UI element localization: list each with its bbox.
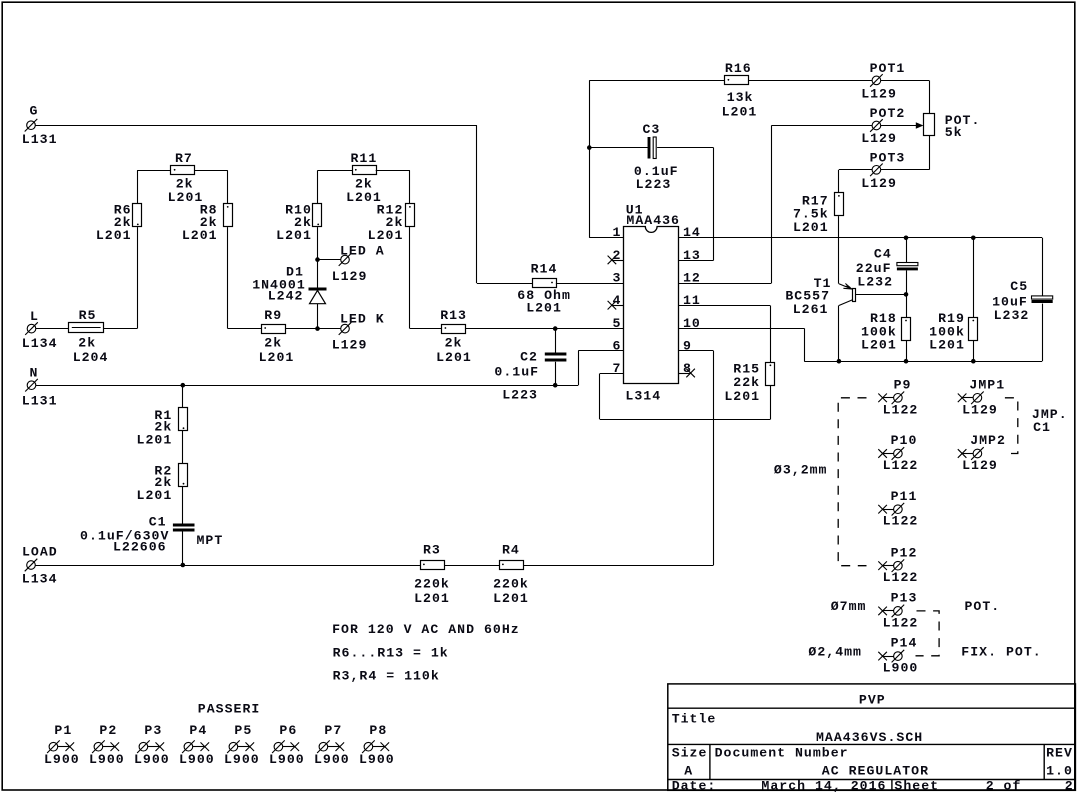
svg-text:R11: R11 — [351, 151, 378, 166]
junction N / C2 bottom node — [553, 383, 558, 388]
wire diode column — [317, 260, 319, 329]
wire T1 base to C4/R18 node — [856, 294, 906, 296]
port P6 — [272, 740, 299, 753]
wire R10 top to R11 left — [318, 170, 353, 259]
resistor R1 — [179, 408, 188, 431]
wire R11 right to R12 top — [376, 170, 410, 203]
wire pin 13 stub — [679, 260, 714, 262]
junction R19 on rail — [971, 359, 976, 364]
svg-text:L22606: L22606 — [113, 540, 167, 555]
wire R5 to R6 riser — [104, 227, 138, 329]
wire pin 11 to R15 top — [679, 306, 771, 363]
svg-text:R3,R4 = 110k: R3,R4 = 110k — [333, 668, 440, 683]
resistor R2 — [179, 464, 188, 487]
junction N / R1 node — [181, 383, 186, 388]
svg-text:R5: R5 — [79, 308, 97, 323]
svg-text:L201: L201 — [137, 433, 173, 448]
port G — [25, 119, 38, 132]
wire R15 bottom to pin7 loop — [770, 386, 772, 420]
svg-text:JMP2: JMP2 — [970, 433, 1006, 448]
svg-text:C2: C2 — [520, 349, 538, 364]
svg-text:REV: REV — [1046, 746, 1073, 761]
wire R1 column — [182, 385, 184, 407]
svg-text:N: N — [30, 365, 39, 380]
resistor R3 — [421, 561, 445, 570]
wire T1 collector down to rail — [838, 306, 840, 362]
svg-text:220k: 220k — [414, 576, 450, 591]
svg-text:L201: L201 — [182, 228, 218, 243]
dashed bracket P9-P12 group — [838, 398, 866, 566]
svg-text:2k: 2k — [264, 336, 282, 351]
capacitor C4 — [897, 238, 918, 295]
svg-text:L129: L129 — [861, 176, 897, 191]
resistor R4 — [500, 561, 524, 570]
svg-text:Ø3,2mm: Ø3,2mm — [774, 463, 828, 478]
svg-text:P12: P12 — [891, 545, 918, 560]
svg-text:C1: C1 — [149, 515, 167, 530]
resistor R12 — [406, 204, 415, 227]
junction C2 top node — [553, 326, 558, 331]
svg-text:C4: C4 — [874, 247, 892, 262]
junction R18 on rail — [904, 359, 909, 364]
junction R19 top on pin14 rail — [971, 236, 976, 241]
svg-text:5: 5 — [612, 316, 621, 331]
port P14 — [878, 650, 904, 663]
svg-text:P6: P6 — [279, 723, 297, 738]
svg-text:L201: L201 — [96, 228, 132, 243]
svg-text:L900: L900 — [359, 752, 395, 767]
port P12 — [878, 559, 904, 572]
svg-text:P4: P4 — [189, 723, 207, 738]
wire N rail to pin 6 riser — [36, 351, 624, 386]
wire LOAD rail — [35, 351, 713, 566]
wire R1 to R2 — [182, 431, 184, 463]
svg-text:FIX. POT.: FIX. POT. — [961, 644, 1041, 659]
wire R14 to pin 3 — [556, 283, 624, 285]
svg-text:L201: L201 — [168, 190, 204, 205]
svg-text:R13: R13 — [440, 308, 467, 323]
resistor R18 — [902, 318, 911, 341]
svg-text:C5: C5 — [1010, 279, 1028, 294]
port P7 — [317, 740, 344, 753]
junction LOAD / C1 node — [181, 563, 186, 568]
port POT1 — [870, 74, 883, 87]
svg-text:Sheet: Sheet — [894, 779, 939, 793]
svg-text:L131: L131 — [22, 393, 58, 408]
svg-text:P1: P1 — [54, 723, 72, 738]
svg-text:L900: L900 — [89, 752, 125, 767]
svg-text:P9: P9 — [894, 377, 912, 392]
svg-text:Document Number: Document Number — [715, 746, 849, 761]
svg-text:MPT: MPT — [197, 533, 224, 548]
svg-text:L131: L131 — [22, 132, 58, 147]
svg-text:L122: L122 — [883, 402, 919, 417]
wire stub to LED A port — [318, 259, 341, 261]
svg-text:L232: L232 — [857, 275, 893, 290]
svg-text:L900: L900 — [179, 752, 215, 767]
port P4 — [182, 740, 209, 753]
wire pin 10 to bottom rail corner — [679, 328, 805, 361]
port P9 — [878, 392, 904, 405]
svg-text:L223: L223 — [636, 177, 672, 192]
port POT3 — [870, 164, 883, 177]
junction C4 top on pin14 rail — [904, 236, 909, 241]
svg-text:R9: R9 — [264, 308, 282, 323]
svg-text:L: L — [30, 309, 39, 324]
wire R9 to LED K node — [285, 328, 317, 330]
svg-text:8: 8 — [683, 361, 692, 376]
junction LED A node — [315, 257, 320, 262]
resistor R9 — [262, 325, 286, 334]
svg-text:22k: 22k — [733, 375, 760, 390]
resistor R10 — [313, 204, 322, 227]
svg-text:P5: P5 — [234, 723, 252, 738]
svg-text:Title: Title — [672, 712, 717, 727]
port JMP2 — [958, 447, 984, 460]
svg-text:POT2: POT2 — [870, 106, 906, 121]
op-amp U1 MAA436 IC body — [624, 227, 679, 384]
svg-text:L900: L900 — [269, 752, 305, 767]
diode D1 1N4001 — [309, 289, 327, 304]
svg-text:P8: P8 — [369, 723, 387, 738]
svg-text:Ø7mm: Ø7mm — [831, 599, 867, 614]
svg-text:P13: P13 — [891, 591, 918, 606]
svg-text:L201: L201 — [137, 488, 173, 503]
port L — [25, 322, 38, 335]
dashed bracket P13-P14 group — [916, 611, 940, 656]
svg-text:L242: L242 — [268, 289, 304, 304]
svg-text:L900: L900 — [134, 752, 170, 767]
port P10 — [878, 447, 904, 460]
pin 2 no-connect — [608, 256, 624, 265]
svg-text:L201: L201 — [929, 337, 965, 352]
title block outline — [668, 684, 1076, 790]
resistor R11 — [353, 166, 377, 175]
svg-text:L261: L261 — [793, 302, 829, 317]
svg-text:G: G — [30, 104, 39, 119]
junction LED K node — [315, 326, 320, 331]
wire pin 14 rail to C5 — [679, 238, 1043, 297]
svg-text:PVP: PVP — [859, 693, 886, 708]
svg-text:L122: L122 — [883, 514, 919, 529]
svg-text:L201: L201 — [722, 104, 758, 119]
svg-text:6: 6 — [612, 338, 621, 353]
svg-text:L201: L201 — [493, 591, 529, 606]
wire R12 bottom to R13 — [410, 227, 442, 329]
svg-text:L900: L900 — [883, 661, 919, 676]
wire R17 to T1 emitter — [838, 216, 840, 284]
svg-text:LED K: LED K — [340, 312, 385, 327]
wire POT3 left to R17 — [839, 170, 873, 193]
wire R19 column — [973, 238, 975, 361]
svg-text:POT3: POT3 — [870, 151, 906, 166]
svg-text:Date:: Date: — [672, 779, 717, 793]
resistor R14 — [533, 279, 557, 288]
resistor R16 — [725, 76, 749, 85]
svg-text:POT.: POT. — [965, 599, 1001, 614]
svg-text:L129: L129 — [962, 402, 998, 417]
wire L to R5 — [36, 328, 69, 330]
svg-text:L201: L201 — [861, 337, 897, 352]
svg-text:JMP1: JMP1 — [969, 377, 1005, 392]
svg-text:C3: C3 — [643, 122, 661, 137]
port N — [25, 379, 38, 392]
svg-text:L122: L122 — [883, 615, 919, 630]
svg-text:L122: L122 — [883, 458, 919, 473]
wire R7 to R8 top — [195, 170, 228, 203]
svg-text:13k: 13k — [727, 90, 754, 105]
wire pin 7 loop under IC — [600, 374, 771, 420]
svg-text:P11: P11 — [891, 489, 918, 504]
svg-text:2: 2 — [1065, 779, 1074, 793]
svg-text:POT1: POT1 — [870, 61, 906, 76]
svg-text:R3: R3 — [423, 542, 441, 557]
wire POT2 wiper with arrow — [881, 122, 924, 129]
wire pot bottom to POT3 — [881, 136, 930, 170]
svg-text:L201: L201 — [259, 350, 295, 365]
wire G net: port to corner, down, to R14 — [35, 125, 532, 283]
svg-text:L204: L204 — [73, 350, 109, 365]
svg-text:L201: L201 — [793, 220, 829, 235]
svg-text:220k: 220k — [493, 576, 529, 591]
svg-text:L201: L201 — [414, 591, 450, 606]
capacitor C2 — [545, 329, 567, 386]
wire bottom rail — [804, 361, 1042, 363]
pin 8 no-connect — [679, 369, 695, 378]
svg-text:L900: L900 — [224, 752, 260, 767]
svg-text:L134: L134 — [22, 572, 58, 587]
svg-text:R6...R13 = 1k: R6...R13 = 1k — [333, 645, 449, 660]
resistor R15 — [766, 363, 775, 386]
capacitor C3 — [589, 137, 713, 260]
svg-text:L129: L129 — [861, 131, 897, 146]
resistor R6 — [133, 204, 142, 227]
svg-text:P3: P3 — [144, 723, 162, 738]
port P5 — [227, 740, 254, 753]
transistor T1 BC557 — [839, 284, 856, 306]
svg-text:R7: R7 — [175, 151, 193, 166]
svg-text:R4: R4 — [502, 542, 520, 557]
junction T1 collector on rail — [837, 359, 842, 364]
svg-text:L223: L223 — [502, 387, 538, 402]
svg-text:L201: L201 — [436, 350, 472, 365]
svg-text:L201: L201 — [368, 228, 404, 243]
wire base node to R18 — [906, 294, 908, 317]
svg-text:P7: P7 — [324, 723, 342, 738]
svg-text:L314: L314 — [625, 389, 661, 404]
svg-text:R16: R16 — [725, 61, 752, 76]
resistor R13 — [442, 325, 466, 334]
wire pin 12 to POT2 — [679, 126, 872, 284]
svg-text:L201: L201 — [724, 389, 760, 404]
svg-text:L201: L201 — [526, 300, 562, 315]
wire POT1 to pot top — [881, 80, 930, 113]
svg-text:L134: L134 — [22, 336, 58, 351]
svg-text:3: 3 — [612, 271, 621, 286]
wire R6 top to R7 — [137, 170, 171, 203]
wire R8 bottom to R9 — [228, 227, 262, 329]
svg-text:5k: 5k — [945, 125, 963, 140]
svg-text:2: 2 — [612, 248, 621, 263]
resistor R8 — [224, 204, 233, 227]
port P11 — [878, 503, 904, 516]
capacitor C1 — [173, 525, 195, 565]
junction T1 base node — [904, 292, 909, 297]
wire pin 1 — [589, 237, 623, 239]
port JMP1 — [958, 392, 984, 405]
svg-text:L232: L232 — [994, 308, 1030, 323]
wire R13 to U1 pin 5 — [465, 328, 623, 330]
dashed bracket JMP1-JMP2 group — [1005, 398, 1018, 454]
svg-text:R14: R14 — [531, 262, 558, 277]
wire R18 to bottom rail — [906, 341, 908, 362]
wire pin 9 stub to LOAD riser — [679, 350, 714, 352]
svg-text:C1: C1 — [1033, 420, 1051, 435]
svg-text:AC REGULATOR: AC REGULATOR — [822, 763, 929, 778]
wire R16 to POT1 — [748, 80, 872, 82]
svg-text:0.1uF: 0.1uF — [494, 364, 539, 379]
port LED K — [339, 322, 352, 335]
junction C3 left node — [587, 145, 592, 150]
svg-text:2k: 2k — [78, 336, 96, 351]
svg-text:L900: L900 — [44, 752, 80, 767]
port P1 — [47, 740, 74, 753]
svg-text:L900: L900 — [314, 752, 350, 767]
port P2 — [92, 740, 119, 753]
pin 4 no-connect — [608, 301, 624, 310]
svg-text:L129: L129 — [861, 86, 897, 101]
svg-text:2 of: 2 of — [986, 779, 1022, 793]
resistor R5 — [69, 323, 104, 333]
port LOAD — [25, 559, 38, 572]
port POT2 — [870, 119, 883, 132]
wire R16 left riser — [589, 80, 724, 237]
port P13 — [878, 605, 904, 618]
svg-text:4: 4 — [612, 293, 621, 308]
svg-text:L201: L201 — [276, 228, 312, 243]
svg-text:P10: P10 — [891, 433, 918, 448]
svg-text:P14: P14 — [891, 636, 918, 651]
svg-text:MAA436: MAA436 — [626, 213, 680, 228]
svg-text:MAA436VS.SCH: MAA436VS.SCH — [816, 730, 923, 745]
svg-text:2k: 2k — [445, 336, 463, 351]
port P8 — [362, 740, 389, 753]
svg-text:A: A — [684, 763, 693, 778]
svg-text:1.0: 1.0 — [1046, 763, 1073, 778]
potentiometer POT. 5k body — [924, 114, 935, 136]
svg-text:FOR 120 V AC AND 60Hz: FOR 120 V AC AND 60Hz — [332, 622, 520, 637]
resistor R19 — [969, 318, 978, 341]
svg-text:L122: L122 — [883, 570, 919, 585]
wire R2 to C1 — [182, 486, 184, 523]
port LED A — [339, 253, 352, 266]
wire stub to LED K port — [318, 328, 341, 330]
svg-text:PASSERI: PASSERI — [198, 702, 261, 717]
svg-text:L129: L129 — [962, 458, 998, 473]
svg-text:Ø2,4mm: Ø2,4mm — [808, 644, 862, 659]
svg-text:LOAD: LOAD — [22, 545, 58, 560]
resistor R7 — [171, 166, 195, 175]
resistor R17 — [835, 193, 844, 216]
svg-text:Size: Size — [672, 746, 708, 761]
port P3 — [137, 740, 164, 753]
capacitor C5 — [1032, 296, 1053, 361]
svg-text:L129: L129 — [332, 338, 368, 353]
svg-text:P2: P2 — [99, 723, 117, 738]
svg-text:LED A: LED A — [340, 244, 385, 259]
svg-text:March 14, 2016: March 14, 2016 — [761, 779, 886, 793]
svg-text:L129: L129 — [332, 269, 368, 284]
